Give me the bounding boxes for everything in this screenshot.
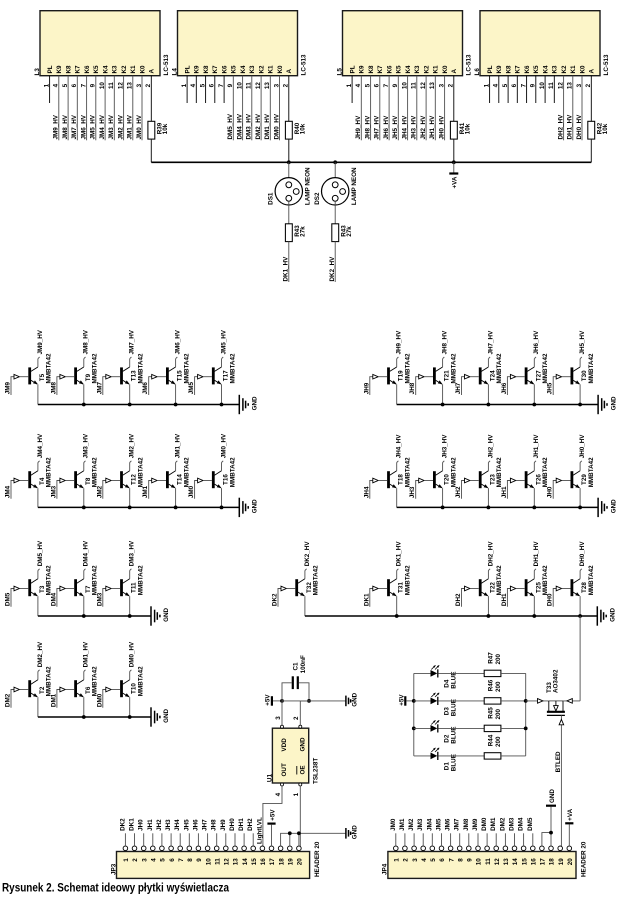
svg-text:K2: K2 [121, 65, 128, 74]
svg-text:JM1_HV: JM1_HV [175, 433, 182, 458]
pin 17 JP3 [269, 846, 274, 851]
net JH6_HV [388, 76, 390, 141]
wire emitter rail [397, 404, 598, 406]
svg-text:2: 2 [132, 858, 139, 862]
svg-text:DH1_HV: DH1_HV [533, 541, 540, 567]
svg-text:JM3: JM3 [50, 485, 57, 498]
svg-text:Rysunek 2. Schemat ideowy płyt: Rysunek 2. Schemat ideowy płytki wyświet… [2, 881, 229, 895]
svg-text:MMBTA42: MMBTA42 [496, 565, 503, 595]
net JM1 [404, 833, 406, 846]
node junction [128, 506, 132, 510]
svg-text:JH8_HV: JH8_HV [364, 115, 371, 140]
svg-text:BLUE: BLUE [451, 727, 458, 744]
net JM8 [468, 833, 470, 846]
wire [282, 700, 309, 702]
resistor R42 10k [588, 121, 595, 139]
transistor T21 (JH8) [433, 367, 436, 384]
svg-text:10k: 10k [465, 123, 472, 134]
pin 7 JP3 [178, 846, 183, 851]
svg-text:K6: K6 [84, 65, 91, 74]
wire [501, 672, 526, 674]
node junction [280, 699, 284, 703]
wire emitter [175, 384, 177, 404]
svg-text:K4: K4 [405, 65, 412, 74]
node junction [82, 715, 86, 719]
pin 4 JP4 [421, 846, 426, 851]
svg-text:DM3: DM3 [509, 817, 516, 831]
svg-text:D3: D3 [444, 707, 451, 716]
pin 5 JP4 [430, 846, 435, 851]
pin 10 JP3 [205, 846, 210, 851]
svg-text:15: 15 [251, 858, 258, 866]
net JH2_HV [425, 76, 427, 141]
net JH5_HV [397, 76, 399, 141]
svg-text:MMBTA42: MMBTA42 [542, 457, 549, 487]
lamp neon DS2 [334, 162, 336, 182]
svg-text:DM1: DM1 [50, 693, 57, 707]
transistor T25 (DH1) [525, 579, 528, 596]
svg-text:K0: K0 [579, 65, 586, 74]
svg-text:JH2_HV: JH2_HV [487, 434, 494, 459]
pin 7 JP4 [448, 846, 453, 851]
pin 2 JP4 [403, 846, 408, 851]
svg-text:K9: K9 [56, 65, 63, 74]
svg-text:OE: OE [299, 765, 306, 774]
svg-text:5: 5 [430, 858, 437, 862]
net DM1 [495, 833, 497, 846]
node junction [549, 831, 553, 835]
transistor T19 (JH9) [387, 367, 390, 384]
node junction [287, 160, 291, 164]
wire emitter [83, 488, 85, 507]
transistor T31 (DK1) [387, 579, 390, 596]
node junction [128, 715, 132, 719]
node junction [288, 831, 292, 835]
svg-text:JM9_HV: JM9_HV [53, 114, 60, 139]
svg-text:L3: L3 [34, 68, 41, 76]
svg-text:JM8: JM8 [50, 382, 57, 395]
wire emitter [304, 596, 306, 616]
transistor T27 (JH6) [525, 367, 528, 384]
display L3 LC-513 [40, 11, 160, 76]
svg-text:DM5_HV: DM5_HV [37, 540, 44, 566]
svg-text:+5V: +5V [398, 694, 405, 706]
svg-text:DM2_HV: DM2_HV [255, 113, 262, 139]
pin 11 JP3 [214, 846, 219, 851]
svg-text:K4: K4 [103, 65, 110, 74]
svg-text:MMBTA42: MMBTA42 [92, 457, 99, 487]
svg-text:L6: L6 [474, 68, 481, 76]
node junction [452, 160, 456, 164]
svg-text:2: 2 [293, 716, 300, 720]
connector JP3 HEADER 20 [117, 852, 310, 879]
port JM7 [103, 377, 106, 395]
port JM3 [57, 481, 60, 499]
wire [288, 201, 290, 224]
svg-text:MMBTA42: MMBTA42 [542, 565, 549, 595]
svg-text:17: 17 [269, 858, 276, 866]
wire emitter [396, 488, 398, 507]
svg-text:K5: K5 [93, 65, 100, 74]
net BTLED [560, 715, 562, 846]
svg-text:9: 9 [196, 858, 203, 862]
node junction [297, 831, 301, 835]
wire emitter [83, 697, 85, 717]
transistor T20 (JH3) [433, 471, 436, 488]
wire anode bus [151, 161, 591, 163]
transistor T2 (DM2) [28, 680, 31, 697]
svg-text:MMBTA42: MMBTA42 [405, 353, 412, 383]
svg-text:10k: 10k [162, 123, 169, 134]
svg-text:JM0_HV: JM0_HV [136, 114, 143, 139]
svg-text:DM2: DM2 [5, 693, 12, 707]
transistor T3 (DM5) [28, 579, 31, 596]
svg-text:LAMP NEON: LAMP NEON [351, 167, 358, 205]
port JH9 [370, 377, 373, 395]
wire emitter [487, 488, 489, 507]
node junction [578, 506, 582, 510]
svg-text:JM4: JM4 [5, 485, 12, 498]
ground [150, 606, 152, 625]
svg-text:GND: GND [163, 708, 170, 722]
pin 17 JP4 [540, 846, 545, 851]
wire emitter rail [397, 506, 598, 508]
svg-text:JM5: JM5 [188, 382, 195, 395]
svg-text:JH4: JH4 [363, 486, 370, 498]
svg-text:4: 4 [275, 792, 282, 796]
transistor T17 (JM5) [212, 367, 215, 384]
svg-text:LC-513: LC-513 [301, 54, 308, 75]
LED D2 BLUE [414, 727, 431, 729]
wire emitter [533, 488, 535, 507]
svg-text:11: 11 [485, 858, 492, 865]
resistor R46 200 [484, 698, 501, 704]
svg-text:DK2: DK2 [272, 593, 279, 606]
net JM9 [477, 833, 479, 846]
net DM1_HV [269, 76, 271, 141]
svg-text:200: 200 [495, 708, 502, 719]
port DM1 [57, 690, 60, 708]
transistor T18 (JH4) [387, 471, 390, 488]
svg-text:JM6_HV: JM6_HV [80, 114, 87, 139]
net JM0_HV [141, 76, 143, 141]
wire emitter [579, 384, 581, 404]
svg-text:K2: K2 [424, 65, 431, 74]
svg-text:DS1: DS1 [268, 192, 275, 205]
svg-text:18: 18 [549, 858, 556, 866]
net DM2 [504, 833, 506, 846]
transistor T16 (JM0) [212, 471, 215, 488]
svg-text:U1: U1 [266, 774, 273, 783]
svg-text:JM7_HV: JM7_HV [71, 114, 78, 139]
pin 9 JP4 [467, 846, 472, 851]
ground [238, 498, 240, 517]
svg-text:LAMP NEON: LAMP NEON [305, 167, 312, 205]
svg-text:JH6: JH6 [192, 819, 199, 831]
net JM8_HV [67, 76, 69, 141]
transistor T7 (DM4) [74, 579, 77, 596]
svg-text:JM8: JM8 [463, 818, 470, 831]
svg-text:TSL238T: TSL238T [312, 758, 319, 784]
net JM4_HV [104, 76, 106, 141]
svg-text:JH6: JH6 [501, 382, 508, 394]
svg-text:K3: K3 [552, 65, 559, 74]
wire [590, 139, 592, 162]
svg-text:D1: D1 [444, 762, 451, 771]
svg-text:GND: GND [352, 692, 359, 706]
svg-text:K2: K2 [259, 65, 266, 74]
port JH6 [507, 377, 510, 395]
svg-text:MMBTA42: MMBTA42 [229, 353, 236, 383]
svg-text:JM3_HV: JM3_HV [108, 114, 115, 139]
resistor R41 10k [450, 121, 457, 139]
svg-text:K9: K9 [359, 65, 366, 74]
svg-text:JH9_HV: JH9_HV [355, 115, 362, 140]
net DM4_HV [242, 76, 244, 141]
svg-text:JP4: JP4 [382, 863, 389, 875]
svg-text:DM4: DM4 [518, 817, 525, 831]
port DH2 [462, 589, 465, 607]
node junction [128, 403, 132, 407]
wire [150, 139, 152, 162]
pin 19 JP4 [558, 846, 563, 851]
svg-text:BLUE: BLUE [451, 699, 458, 716]
wire [453, 139, 455, 162]
port DM4 [57, 589, 60, 607]
svg-text:JM9: JM9 [472, 818, 479, 831]
svg-text:MMBTA42: MMBTA42 [496, 457, 503, 487]
svg-text:+5V: +5V [264, 694, 271, 706]
net JH8 [216, 833, 218, 846]
svg-text:DM4_HV: DM4_HV [236, 113, 243, 139]
svg-text:JH8_HV: JH8_HV [442, 330, 449, 355]
svg-text:DH2_HV: DH2_HV [557, 114, 564, 140]
node junction [174, 403, 178, 407]
svg-text:12: 12 [494, 858, 501, 866]
svg-text:K7: K7 [377, 65, 384, 74]
svg-text:K6: K6 [524, 65, 531, 74]
svg-text:JH4_HV: JH4_HV [396, 434, 403, 459]
wire emitter [442, 384, 444, 404]
svg-text:12: 12 [224, 858, 231, 866]
pin 19 JP3 [288, 846, 293, 851]
wire [501, 727, 526, 729]
wire [288, 139, 290, 162]
wire [438, 727, 484, 729]
svg-text:3: 3 [412, 858, 419, 862]
wire emitter [129, 596, 131, 616]
resistor R44 200 [484, 753, 501, 759]
net DM3_HV [251, 76, 253, 141]
op-amp U1 TSL238T [272, 728, 308, 783]
svg-text:A: A [286, 69, 293, 74]
pin 4 JP3 [151, 846, 156, 851]
pin 3 JP4 [412, 846, 417, 851]
port DM0 [103, 690, 106, 708]
svg-text:D2: D2 [444, 734, 451, 743]
pin 20 JP4 [567, 846, 572, 851]
net DM3 [514, 833, 516, 846]
node junction [524, 727, 528, 731]
svg-text:GND: GND [252, 499, 259, 513]
svg-text:DM1: DM1 [490, 817, 497, 831]
svg-text:DH2: DH2 [455, 593, 462, 606]
transistor T22 (DH2) [479, 579, 482, 596]
svg-text:MMBTA42: MMBTA42 [588, 457, 595, 487]
svg-text:GND: GND [252, 396, 259, 410]
svg-text:JH5_HV: JH5_HV [579, 330, 586, 355]
net JM3_HV [113, 76, 115, 141]
net JH3 [170, 833, 172, 846]
svg-text:JP3: JP3 [110, 863, 117, 875]
node junction [441, 403, 445, 407]
node junction [524, 699, 528, 703]
node junction [532, 506, 536, 510]
pin 1 JP3 [123, 846, 128, 851]
ground (JP3 pins 18-20) [281, 833, 346, 846]
svg-text:JM2: JM2 [408, 818, 415, 831]
svg-text:JH9: JH9 [363, 382, 370, 394]
node junction [487, 403, 491, 407]
svg-text:K3: K3 [249, 65, 256, 74]
pin 20 JP3 [297, 846, 302, 851]
port JM4 [11, 481, 14, 499]
svg-text:8: 8 [187, 858, 194, 862]
wire [438, 672, 484, 674]
svg-text:MMBTA42: MMBTA42 [229, 457, 236, 487]
transistor T28 (DH0) [571, 579, 574, 596]
svg-text:JH2: JH2 [156, 819, 163, 831]
svg-text:DK1_HV: DK1_HV [283, 256, 290, 282]
svg-text:PL: PL [185, 65, 192, 73]
svg-text:R46: R46 [488, 679, 495, 691]
resistor R43 [332, 224, 339, 242]
svg-text:DH1_HV: DH1_HV [567, 114, 574, 140]
port JH8 [416, 377, 419, 395]
svg-text:K8: K8 [66, 65, 73, 74]
pin 1 OE [299, 783, 302, 786]
transistor T29 (JH0) [571, 471, 574, 488]
svg-text:MMBTA42: MMBTA42 [405, 565, 412, 595]
ground [150, 707, 152, 726]
net JH0_HV [444, 76, 446, 141]
svg-text:MMBTA42: MMBTA42 [138, 666, 145, 696]
svg-text:DM5: DM5 [5, 592, 12, 606]
net JH0 [143, 833, 145, 846]
wire OE to JP3 pin 20 [299, 786, 301, 846]
svg-text:LC-513: LC-513 [163, 54, 170, 75]
pin 12 JP4 [494, 846, 499, 851]
pin 8 JP4 [457, 846, 462, 851]
port JH7 [462, 377, 465, 395]
wire emitter rail [38, 506, 239, 508]
svg-text:K8: K8 [368, 65, 375, 74]
svg-text:10: 10 [476, 858, 483, 866]
wire emitter rail [305, 615, 597, 617]
svg-text:MMBTA42: MMBTA42 [588, 565, 595, 595]
svg-text:JH8: JH8 [211, 819, 218, 831]
svg-text:K3: K3 [414, 65, 421, 74]
net DH0_HV [581, 76, 583, 141]
svg-text:MMBTA42: MMBTA42 [46, 565, 53, 595]
svg-text:LightLVL: LightLVL [257, 817, 264, 844]
svg-text:GND: GND [549, 789, 556, 803]
node junction [82, 506, 86, 510]
net JM2_HV [123, 76, 125, 141]
svg-text:K7: K7 [75, 65, 82, 74]
net JM3 [422, 833, 424, 846]
net JH6 [197, 833, 199, 846]
pin 1 JP4 [394, 846, 399, 851]
net JH7 [207, 833, 209, 846]
svg-text:DK1_HV: DK1_HV [396, 541, 403, 567]
svg-text:GND: GND [299, 737, 306, 751]
wire LED left bus [413, 673, 415, 756]
svg-text:JM1: JM1 [399, 818, 406, 831]
svg-text:L5: L5 [337, 68, 344, 76]
transistor T32 (DK2) [295, 579, 298, 596]
net DK1 [134, 833, 136, 846]
LED D4 BLUE [414, 672, 431, 674]
wire emitter [487, 596, 489, 616]
wire emitter [579, 488, 581, 507]
svg-text:JH3_HV: JH3_HV [411, 115, 418, 140]
node junction [532, 614, 536, 618]
svg-text:R45: R45 [488, 707, 495, 719]
svg-text:4: 4 [151, 858, 158, 862]
port JH1 [507, 481, 510, 499]
svg-text:PL: PL [47, 65, 54, 73]
svg-text:14: 14 [242, 858, 249, 866]
wire emitter [37, 697, 39, 717]
svg-text:8: 8 [457, 858, 464, 862]
svg-text:K9: K9 [194, 65, 201, 74]
svg-text:PL: PL [487, 65, 494, 73]
wire emitter [442, 488, 444, 507]
power +5V (LEDs) [404, 696, 406, 706]
port JH0 [553, 481, 556, 499]
svg-text:DM0: DM0 [481, 817, 488, 831]
pin 15 JP3 [251, 846, 256, 851]
svg-text:LC-513: LC-513 [603, 54, 610, 75]
wire emitter [396, 596, 398, 616]
svg-text:MMBTA42: MMBTA42 [450, 353, 457, 383]
connector JP4 HEADER 20 [388, 852, 576, 879]
node junction [82, 614, 86, 618]
svg-text:GND: GND [163, 607, 170, 621]
svg-text:JH0_HV: JH0_HV [579, 434, 586, 459]
node junction [82, 403, 86, 407]
svg-text:DK2_HV: DK2_HV [329, 256, 336, 282]
svg-text:JM4_HV: JM4_HV [99, 114, 106, 139]
transistor T11 (DM3) [120, 579, 123, 596]
svg-text:6: 6 [439, 858, 446, 862]
svg-text:JM7: JM7 [96, 382, 103, 395]
svg-text:MMBTA42: MMBTA42 [46, 353, 53, 383]
svg-text:MMBTA42: MMBTA42 [92, 353, 99, 383]
svg-text:MMBTA42: MMBTA42 [92, 666, 99, 696]
svg-text:JM8_HV: JM8_HV [62, 114, 69, 139]
svg-text:MMBTA42: MMBTA42 [183, 353, 190, 383]
node junction [128, 614, 132, 618]
svg-text:JM2: JM2 [96, 485, 103, 498]
svg-text:DH0: DH0 [547, 593, 554, 606]
port DK1 [370, 589, 373, 607]
svg-text:JM9: JM9 [5, 382, 12, 395]
net DK2 [124, 833, 126, 846]
resistor R43 [285, 224, 292, 242]
wire [501, 755, 526, 757]
